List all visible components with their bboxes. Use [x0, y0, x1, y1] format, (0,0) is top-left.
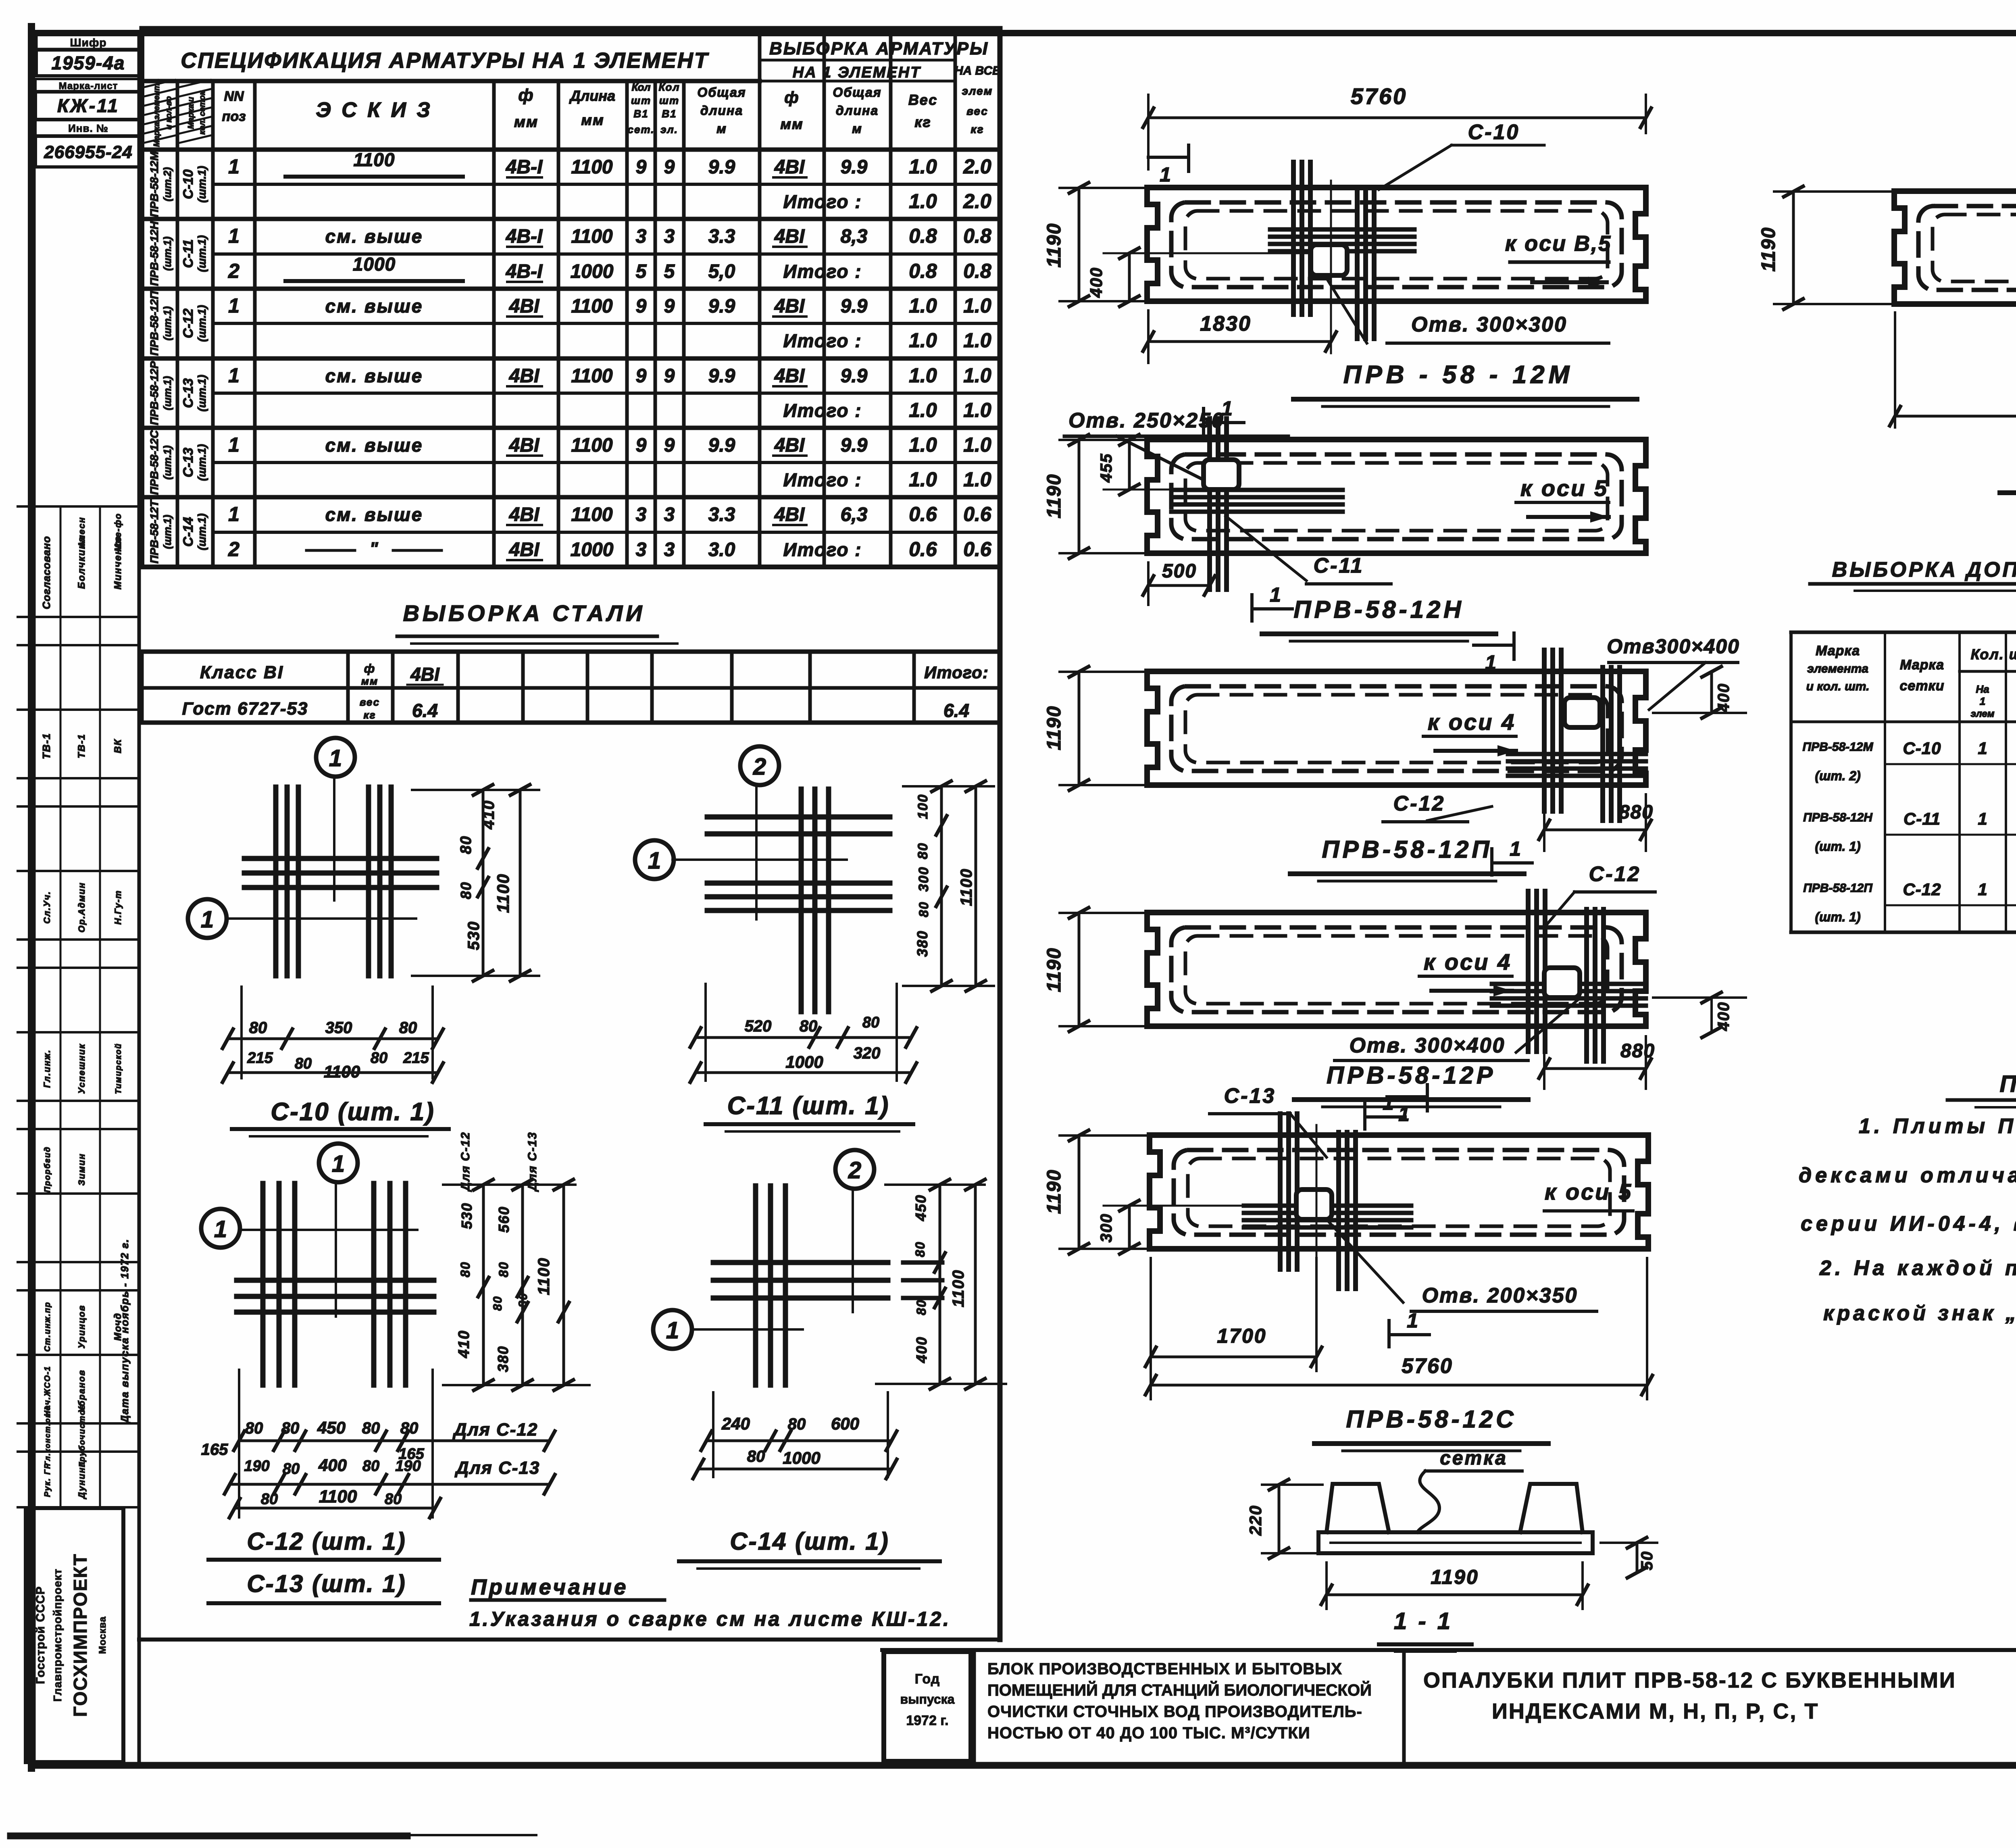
svg-text:5,0: 5,0 — [708, 261, 735, 282]
slab PRV-58-12M title — [1293, 361, 1637, 406]
svg-text:1100: 1100 — [319, 1487, 357, 1506]
svg-text:80: 80 — [491, 1296, 504, 1310]
svg-text:1: 1 — [1160, 163, 1171, 186]
svg-text:0.6: 0.6 — [963, 538, 992, 560]
svg-text:1: 1 — [1383, 1092, 1394, 1114]
svg-text:9: 9 — [664, 156, 675, 178]
svg-text:5760: 5760 — [1351, 83, 1408, 109]
svg-text:НОСТЬЮ ОТ 40 ДО 100 ТЫС.: НОСТЬЮ ОТ 40 ДО 100 ТЫС. М³/СУТКИ — [987, 1724, 1310, 1742]
svg-text:80: 80 — [362, 1419, 380, 1437]
svg-text:400: 400 — [1715, 1002, 1733, 1031]
spec table title: SPETSIFIKATSIYA ARMATURY NA 1 ELEMENT — [181, 48, 709, 73]
svg-text:кг: кг — [363, 709, 376, 721]
mesh C-10 callout circle 1 top — [316, 738, 355, 900]
svg-text:1: 1 — [1398, 1103, 1410, 1125]
svg-text:см. выше: см. выше — [325, 435, 423, 456]
svg-text:Кол: Кол — [631, 81, 650, 93]
slab PRV-58-12R section flag bottom — [1365, 1092, 1405, 1129]
svg-text:(шт. 1): (шт. 1) — [1815, 910, 1860, 924]
svg-text:1100: 1100 — [571, 156, 613, 178]
svg-text:530: 530 — [458, 1202, 475, 1229]
svg-text:3: 3 — [664, 504, 675, 525]
svg-text:4ВI: 4ВI — [410, 664, 440, 685]
svg-text:вес: вес — [360, 696, 380, 708]
svg-text:сетки: сетки — [1899, 678, 1944, 694]
svg-text:9.9: 9.9 — [841, 296, 868, 317]
slab PRV-58-12T title — [2000, 455, 2016, 500]
slab PRV-58-12P section flag bottom — [1492, 838, 1532, 875]
svg-text:С-12: С-12 — [1903, 880, 1941, 899]
svg-text:215: 215 — [247, 1050, 273, 1067]
svg-text:1: 1 — [329, 745, 342, 771]
svg-text:Марка: Марка — [1816, 643, 1860, 658]
svg-text:165: 165 — [201, 1441, 228, 1458]
svg-text:ПРВ-58-12С: ПРВ-58-12С — [1346, 1406, 1516, 1433]
svg-text:380: 380 — [495, 1346, 511, 1372]
svg-text:1.0: 1.0 — [963, 294, 991, 317]
svg-text:вес: вес — [966, 105, 988, 117]
svg-text:80: 80 — [458, 835, 475, 854]
svg-text:6.4: 6.4 — [412, 700, 438, 721]
svg-text:9.9: 9.9 — [841, 365, 868, 387]
slab PRV-58-12N bottom dims — [1143, 516, 1391, 605]
svg-text:КЖ-11: КЖ-11 — [57, 95, 119, 116]
left strip rotated labels — [40, 513, 131, 1500]
svg-text:450: 450 — [912, 1194, 929, 1221]
svg-text:1830: 1830 — [1200, 312, 1252, 335]
svg-text:80: 80 — [371, 1050, 387, 1067]
svg-text:Гл.конст.отд: Гл.конст.отд — [44, 1405, 52, 1466]
left strip GOSKHIMPROEKT box — [26, 1508, 123, 1762]
svg-text:С-10: С-10 — [1903, 739, 1941, 758]
svg-text:Зимин: Зимин — [77, 1153, 87, 1186]
svg-text:ПРВ-58-12П: ПРВ-58-12П — [148, 291, 160, 356]
slab PRV-58-12P right dim 400 — [1653, 667, 1746, 718]
svg-text:1100: 1100 — [324, 1062, 360, 1081]
svg-text:560: 560 — [496, 1206, 512, 1233]
svg-text:80: 80 — [862, 1014, 879, 1031]
primechaniya title — [1947, 1071, 2016, 1107]
svg-text:ПРВ-58-12М: ПРВ-58-12М — [1803, 740, 1874, 754]
svg-text:320: 320 — [854, 1044, 881, 1062]
svg-text:600: 600 — [831, 1414, 859, 1433]
svg-text:С-13: С-13 — [181, 448, 196, 477]
svg-text:(шт.1): (шт.1) — [161, 515, 173, 549]
title block object description cell — [974, 1650, 1404, 1765]
slab PRV-58-12M body — [1147, 188, 1646, 301]
svg-text:элемента: элемента — [1807, 662, 1868, 675]
mesh C-14 right dimensions — [876, 1179, 1006, 1389]
spec table group rows — [142, 151, 1000, 567]
svg-text:1100: 1100 — [535, 1257, 553, 1295]
svg-text:ИНДЕКСАМИ М, Н, П, Р, С, Т: ИНДЕКСАМИ М, Н, П, Р, С, Т — [1492, 1699, 1819, 1723]
svg-text:Для С-13: Для С-13 — [526, 1131, 539, 1192]
svg-text:СПЕЦИФИКАЦИЯ АРМАТУРЫ НА 1: СПЕЦИФИКАЦИЯ АРМАТУРЫ НА 1 ЭЛЕМЕНТ — [181, 48, 709, 73]
svg-text:4ВI: 4ВI — [774, 296, 805, 317]
svg-text:Прорбгид: Прорбгид — [43, 1146, 52, 1193]
svg-text:3.3: 3.3 — [708, 226, 735, 247]
svg-text:0.8: 0.8 — [909, 225, 937, 247]
svg-text:ПРВ-58-12Н: ПРВ-58-12Н — [148, 221, 160, 286]
svg-text:80: 80 — [516, 1292, 530, 1307]
svg-text:С-11: С-11 — [1314, 554, 1364, 577]
svg-text:300: 300 — [916, 867, 931, 892]
svg-text:дексами отличаются от плит: дексами отличаются от плит ПРВ - 58-12 — [1799, 1164, 2016, 1187]
svg-text:4ВI: 4ВI — [774, 226, 805, 247]
svg-text:0.8: 0.8 — [963, 225, 991, 247]
svg-text:В1: В1 — [662, 108, 677, 120]
slab PRV-58-12S body — [1150, 1135, 1648, 1249]
svg-text:(шт.2): (шт.2) — [161, 167, 173, 202]
svg-text:Для С-13: Для С-13 — [454, 1458, 540, 1478]
svg-text:С-12: С-12 — [181, 308, 196, 338]
svg-text:Общая: Общая — [833, 85, 881, 100]
svg-text:190: 190 — [395, 1458, 421, 1475]
slab PRV-58-12N body — [1147, 440, 1646, 553]
svg-text:Алесн: Алесн — [77, 517, 87, 548]
vyborka armatury header — [760, 39, 1001, 81]
slab PRV-58-12M axis text k osi B5 — [1505, 231, 1612, 288]
svg-text:2.0: 2.0 — [963, 190, 991, 213]
svg-text:9: 9 — [636, 365, 647, 387]
slab PRV-58-12S axis text k osi 5 — [1544, 1179, 1633, 1211]
svg-text:Итого :: Итого : — [783, 539, 862, 560]
svg-text:9.9: 9.9 — [708, 156, 735, 178]
svg-text:(шт. 2): (шт. 2) — [1815, 769, 1860, 783]
svg-text:266955-24: 266955-24 — [44, 142, 132, 162]
svg-text:мм: мм — [361, 675, 378, 687]
mesh C-13 label — [208, 1570, 439, 1603]
svg-text:1: 1 — [228, 433, 240, 456]
slab PRV-58-12N axis text k osi 5 — [1516, 475, 1609, 523]
svg-text:Итого :: Итого : — [783, 261, 862, 282]
svg-text:400: 400 — [1087, 267, 1106, 298]
svg-text:520: 520 — [745, 1017, 772, 1035]
svg-text:220: 220 — [1246, 1505, 1265, 1536]
svg-text:0.6: 0.6 — [909, 538, 937, 560]
svg-text:": " — [370, 539, 379, 558]
mesh C-10 right dimensions — [412, 785, 539, 981]
mesh C-11 right dimensions — [903, 781, 994, 991]
svg-text:1000: 1000 — [783, 1448, 820, 1467]
svg-text:см. выше: см. выше — [325, 226, 423, 247]
svg-text:3.0: 3.0 — [708, 539, 735, 560]
slab PRV-58-12R left dim 1190 — [1043, 908, 1144, 1031]
svg-text:сет.: сет. — [628, 123, 655, 135]
svg-text:С-13: С-13 — [1224, 1084, 1276, 1108]
slab PRV-58-12S section flag bottom — [1389, 1309, 1429, 1347]
mesh C-14 bars — [713, 1186, 942, 1385]
svg-text:8,3: 8,3 — [841, 226, 868, 247]
svg-text:серии ИИ-04-4, вып. 1 наличи: серии ИИ-04-4, вып. 1 наличием отверстий… — [1801, 1212, 2016, 1235]
svg-text:3: 3 — [636, 504, 647, 525]
svg-text:1: 1 — [332, 1151, 345, 1177]
svg-text:1959-4а: 1959-4а — [52, 52, 125, 73]
svg-text:9: 9 — [636, 435, 647, 456]
slab PRV-58-12N section flag bottom — [1252, 583, 1292, 621]
svg-text:(шт.1): (шт.1) — [196, 444, 208, 481]
svg-text:2: 2 — [228, 538, 240, 560]
svg-text:240: 240 — [721, 1414, 750, 1433]
slab PRV-58-12R axis text k osi 4 — [1419, 949, 1512, 996]
svg-text:БЛОК ПРОИЗВОДСТВЕННЫХ И: БЛОК ПРОИЗВОДСТВЕННЫХ И БЫТОВЫХ — [987, 1660, 1342, 1678]
svg-text:Рук. ГР: Рук. ГР — [43, 1463, 52, 1497]
svg-text:С-11: С-11 — [181, 239, 196, 268]
svg-text:1190: 1190 — [1043, 947, 1065, 992]
mesh C-11 callout circle 1 left — [635, 840, 847, 879]
mesh C-12 right dimensions — [443, 1131, 589, 1390]
svg-text:NN: NN — [224, 89, 244, 104]
svg-text:400: 400 — [1715, 683, 1733, 713]
svg-text:ОПАЛУБКИ ПЛИТ ПРВ-58-12 С: ОПАЛУБКИ ПЛИТ ПРВ-58-12 С БУКВЕННЫМИ — [1423, 1668, 1956, 1692]
slab PRV-58-12P body — [1147, 671, 1646, 785]
svg-text:С-12: С-12 — [1393, 792, 1445, 815]
svg-text:ПРВ-58-12С: ПРВ-58-12С — [148, 430, 160, 495]
mesh C-14 callout circle 1 left — [653, 1310, 803, 1349]
svg-text:80: 80 — [913, 1241, 927, 1257]
mesh C-14 label — [679, 1528, 940, 1569]
svg-text:Итого:: Итого: — [924, 663, 989, 682]
svg-text:Инв. №: Инв. № — [68, 122, 108, 134]
svg-text:(шт.1): (шт.1) — [161, 376, 173, 410]
mesh C-10 bottom dimensions — [223, 987, 443, 1082]
svg-text:9.9: 9.9 — [708, 435, 735, 456]
spec table column headers — [222, 81, 993, 136]
svg-text:к оси 5: к оси 5 — [1520, 475, 1608, 501]
svg-text:100: 100 — [915, 794, 931, 819]
svg-text:На: На — [1976, 683, 1989, 695]
svg-text:4ВI: 4ВI — [774, 156, 805, 178]
svg-text:Ор.Админ: Ор.Админ — [77, 882, 87, 932]
mesh C-11 label — [706, 1092, 913, 1131]
svg-text:9: 9 — [664, 365, 675, 387]
mesh C-12 bars — [237, 1183, 434, 1385]
svg-text:1.0: 1.0 — [909, 433, 937, 456]
svg-text:см. выше: см. выше — [325, 365, 423, 386]
svg-text:6,3: 6,3 — [841, 504, 868, 525]
svg-text:Примечание: Примечание — [471, 1575, 629, 1599]
svg-text:Итого :: Итого : — [783, 191, 862, 212]
svg-text:80: 80 — [458, 881, 474, 899]
svg-text:80: 80 — [295, 1055, 312, 1072]
svg-text:80: 80 — [400, 1419, 419, 1437]
title block top border — [882, 1648, 2016, 1652]
slab PRV-58-12R mesh and hole — [1492, 891, 1646, 1061]
mesh C-11 bottom dimensions — [690, 984, 916, 1082]
title block sheet title cell — [1423, 1668, 1956, 1723]
svg-text:410: 410 — [456, 1330, 473, 1358]
svg-text:1: 1 — [1978, 809, 1987, 828]
svg-text:80: 80 — [362, 1458, 379, 1475]
slab PRV-58-12M mesh and hole — [1270, 162, 1414, 353]
svg-text:ПРВ-58-12П: ПРВ-58-12П — [1322, 836, 1492, 863]
svg-text:Главпромстройпроект: Главпромстройпроект — [51, 1569, 64, 1702]
svg-text:1190: 1190 — [1043, 705, 1065, 750]
svg-text:1.0: 1.0 — [963, 399, 991, 421]
mesh C-10 callout circle 1 left — [188, 899, 416, 938]
svg-text:300: 300 — [1098, 1213, 1115, 1243]
svg-text:длина: длина — [836, 103, 879, 118]
svg-text:80: 80 — [914, 1299, 929, 1315]
svg-text:см. выше: см. выше — [325, 504, 423, 525]
vyborka stali title — [397, 600, 677, 644]
svg-text:(шт.1): (шт.1) — [196, 235, 208, 272]
svg-text:Гл.инж.: Гл.инж. — [42, 1049, 52, 1088]
dop setok table left — [1791, 632, 2016, 932]
slab PRV-58-12S left dims 1190 300 — [1043, 1130, 1296, 1254]
svg-text:ПРВ-58-12М: ПРВ-58-12М — [148, 151, 160, 217]
svg-text:ВК: ВК — [112, 739, 123, 753]
left strip stamp boxes — [35, 33, 141, 1765]
svg-text:1000: 1000 — [571, 539, 614, 560]
svg-text:выпуска: выпуска — [900, 1692, 955, 1706]
svg-text:ПРВ-58-12Н: ПРВ-58-12Н — [1293, 596, 1464, 623]
svg-text:80: 80 — [496, 1261, 511, 1277]
svg-text:4ВI: 4ВI — [509, 365, 540, 387]
svg-text:5: 5 — [664, 261, 675, 282]
slab PRV-58-12R title — [1294, 1062, 1528, 1107]
svg-text:(шт.1): (шт.1) — [161, 306, 173, 341]
svg-text:эл.: эл. — [660, 123, 678, 135]
svg-text:1: 1 — [214, 1216, 227, 1242]
svg-text:см. выше: см. выше — [325, 296, 423, 317]
svg-text:длина: длина — [700, 103, 743, 118]
svg-text:к оси 5: к оси 5 — [1545, 1179, 1633, 1204]
svg-text:1: 1 — [648, 848, 661, 874]
svg-text:1: 1 — [201, 906, 214, 933]
bottom-left page edge bar — [10, 1835, 536, 1836]
svg-text:С-12 (шт. 1): С-12 (шт. 1) — [247, 1528, 406, 1555]
spec table outer grid — [142, 29, 1000, 1640]
svg-text:2: 2 — [753, 754, 766, 780]
svg-text:м: м — [716, 121, 727, 136]
svg-text:80: 80 — [249, 1019, 267, 1037]
svg-text:1: 1 — [1978, 739, 1987, 758]
slab PRV-58-12T bottom dims 500 5760 — [1890, 313, 2016, 427]
svg-text:0.8: 0.8 — [909, 260, 937, 282]
svg-text:Кол. шт.: Кол. шт. — [1971, 646, 2016, 663]
svg-text:к оси В,5: к оси В,5 — [1505, 231, 1612, 256]
vyborka stali table — [142, 652, 1000, 723]
svg-text:4В-I: 4В-I — [506, 156, 543, 178]
svg-text:Отв. 300×400: Отв. 300×400 — [1350, 1034, 1506, 1057]
svg-text:9.9: 9.9 — [841, 156, 868, 178]
mesh C-12 label — [208, 1528, 439, 1560]
svg-text:80: 80 — [916, 901, 931, 917]
svg-text:элем: элем — [1971, 708, 1995, 719]
svg-text:1: 1 — [1510, 838, 1521, 860]
svg-text:1.0: 1.0 — [909, 294, 937, 317]
svg-text:Н.Гу-т: Н.Гу-т — [113, 890, 123, 925]
svg-text:9: 9 — [636, 156, 647, 178]
svg-text:1100: 1100 — [958, 868, 975, 906]
spec table rotated group header hatching — [144, 79, 210, 147]
svg-text:215: 215 — [403, 1050, 429, 1067]
svg-text:ф: ф — [364, 662, 376, 675]
vyborka dopolnitelnykh setok title — [1810, 558, 2016, 591]
svg-text:4ВI: 4ВI — [509, 435, 540, 456]
svg-text:3.3: 3.3 — [708, 504, 735, 525]
svg-text:4ВI: 4ВI — [774, 504, 805, 525]
svg-text:(шт. 1): (шт. 1) — [1815, 839, 1860, 854]
mesh C-12 callout circle 1 top — [319, 1144, 358, 1317]
svg-text:400: 400 — [913, 1336, 930, 1363]
slab PRV-58-12R body — [1147, 913, 1646, 1026]
svg-text:1100: 1100 — [950, 1269, 967, 1307]
mesh C-14 callout circle 2 top — [835, 1150, 874, 1312]
svg-text:Э С К И З: Э С К И З — [316, 98, 433, 122]
svg-text:С-13 (шт. 1): С-13 (шт. 1) — [247, 1570, 406, 1597]
slab PRV-58-12S section flag top — [1387, 1085, 1427, 1125]
slab PRV-58-12M mesh leader C-10 — [1379, 121, 1544, 190]
svg-text:Марка-лист: Марка-лист — [59, 81, 118, 92]
slab PRV-58-12N hole label Otv 250x250 — [1064, 409, 1288, 482]
svg-text:ПРВ-58-12Р: ПРВ-58-12Р — [148, 361, 160, 425]
svg-text:сетка: сетка — [1440, 1448, 1508, 1469]
svg-text:9: 9 — [664, 435, 675, 456]
svg-text:50: 50 — [1638, 1551, 1656, 1571]
section 1-1 profile — [1318, 1484, 1593, 1553]
svg-text:2: 2 — [228, 260, 240, 282]
svg-text:2. На каждой плите нанест: 2. На каждой плите нанести масляной — [1819, 1256, 2016, 1280]
svg-text:3: 3 — [664, 539, 675, 560]
svg-text:Итого :: Итого : — [783, 400, 862, 421]
slab PRV-58-12P bottom dims — [1383, 792, 1654, 851]
svg-text:С-12: С-12 — [1589, 863, 1641, 886]
slab PRV-58-12N title — [1262, 596, 1496, 641]
svg-text:(шт.1): (шт.1) — [196, 166, 208, 202]
svg-text:кг: кг — [914, 114, 931, 130]
slab PRV-58-12M left dims 1190 400 — [1043, 183, 1311, 306]
svg-text:к оси 4: к оси 4 — [1424, 949, 1512, 975]
svg-text:1: 1 — [228, 364, 240, 387]
section 1-1 setka label — [1417, 1448, 1522, 1532]
svg-text:350: 350 — [325, 1019, 352, 1037]
svg-text:м: м — [852, 121, 862, 136]
svg-text:9.9: 9.9 — [841, 435, 868, 456]
svg-text:4ВI: 4ВI — [509, 504, 540, 525]
slab PRV-58-12P axis text k osi 4 — [1423, 709, 1516, 756]
svg-text:3: 3 — [664, 226, 675, 247]
svg-text:Отв300×400: Отв300×400 — [1607, 635, 1740, 658]
svg-text:4В-I: 4В-I — [506, 226, 543, 247]
slab PRV-58-12M section flag bottom — [1204, 397, 1244, 435]
svg-text:80: 80 — [245, 1419, 263, 1437]
svg-text:1.0: 1.0 — [909, 468, 937, 491]
mesh C-14 bottom dimensions — [693, 1392, 897, 1479]
svg-text:ПРВ-58-12П: ПРВ-58-12П — [1803, 881, 1873, 895]
svg-text:ПОМЕЩЕНИЙ ДЛЯ СТАНЦИЙ БИОЛОГИЧ: ПОМЕЩЕНИЙ ДЛЯ СТАНЦИЙ БИОЛОГИЧЕСКОЙ — [987, 1681, 1372, 1699]
svg-text:Итого :: Итого : — [783, 469, 862, 490]
spec table data rows — [228, 149, 992, 560]
svg-text:80: 80 — [399, 1019, 417, 1037]
svg-text:1.0: 1.0 — [963, 329, 991, 352]
section 1-1 dims — [1246, 1479, 1657, 1609]
svg-text:ТВ-1: ТВ-1 — [40, 733, 52, 759]
svg-text:1: 1 — [1270, 583, 1281, 606]
svg-text:1700: 1700 — [1217, 1325, 1266, 1347]
svg-text:к оси 4: к оси 4 — [1428, 709, 1516, 735]
svg-text:(шт.1): (шт.1) — [196, 513, 208, 550]
svg-text:1100: 1100 — [571, 504, 613, 525]
mesh C-11 callout circle 2 top — [740, 746, 779, 919]
svg-text:мм: мм — [780, 116, 803, 132]
svg-text:кг: кг — [971, 123, 984, 135]
svg-text:1.0: 1.0 — [909, 364, 937, 387]
svg-text:мм: мм — [514, 114, 538, 131]
svg-text:Отв. 200×350: Отв. 200×350 — [1422, 1284, 1578, 1307]
slab PRV-58-12N mesh and hole — [1171, 419, 1343, 590]
